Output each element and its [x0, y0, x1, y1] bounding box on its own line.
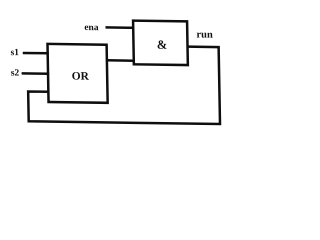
svg-text:ena: ena	[84, 23, 99, 33]
svg-text:OR: OR	[72, 71, 90, 83]
svg-text:s2: s2	[11, 68, 20, 78]
svg-text:&: &	[157, 38, 168, 52]
wire s1 input	[23, 52, 49, 55]
wire s2 input	[22, 72, 50, 75]
svg-text:run: run	[196, 29, 213, 40]
wire ena input	[105, 26, 133, 29]
or-gate U1 box	[48, 44, 108, 103]
wire or-output to and-input	[106, 59, 134, 62]
svg-text:s1: s1	[10, 48, 19, 58]
wire and-output run feedback loop	[27, 44, 220, 124]
and-gate U2 box	[133, 21, 188, 65]
